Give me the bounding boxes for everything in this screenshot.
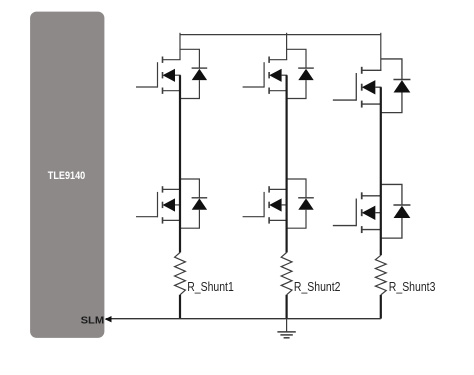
transistor Q4 low-side phase 1 <box>136 179 207 228</box>
transistor Q6 low-side phase 3 <box>333 184 411 238</box>
wire phase node column 3 <box>380 87 382 255</box>
wire resistor 3 to ground rail <box>380 295 382 319</box>
transistor Q3 high-side phase 3 <box>333 59 411 113</box>
ground <box>277 319 295 338</box>
svg-text:TLE9140: TLE9140 <box>48 170 85 182</box>
svg-text:R_Shunt3: R_Shunt3 <box>389 279 436 294</box>
wire drain stub column 3 <box>380 33 382 71</box>
wire drain stub column 2 <box>286 33 288 60</box>
wire phase node column 1 <box>179 75 181 252</box>
svg-text:R_Shunt2: R_Shunt2 <box>294 279 341 294</box>
wire phase node column 2 <box>286 75 288 252</box>
wire bottom rail / SLM net <box>106 318 381 320</box>
resistor R_Shunt3 <box>375 255 386 295</box>
wire resistor 2 to ground rail <box>286 295 288 319</box>
resistor R_Shunt1 <box>175 253 186 295</box>
arrowhead into SLM pin <box>105 316 112 322</box>
transistor Q1 high-side phase 1 <box>136 49 207 98</box>
svg-text:R_Shunt1: R_Shunt1 <box>187 279 234 294</box>
wire resistor 1 to ground rail <box>179 295 181 319</box>
transistor Q2 high-side phase 2 <box>243 49 314 98</box>
wire top supply rail <box>180 34 381 36</box>
transistor Q5 low-side phase 2 <box>243 179 314 228</box>
IC U1 TLE9140 <box>30 12 104 338</box>
svg-text:SLM: SLM <box>81 315 105 327</box>
wire drain stub column 1 <box>179 33 181 60</box>
resistor R_Shunt2 <box>281 253 292 295</box>
